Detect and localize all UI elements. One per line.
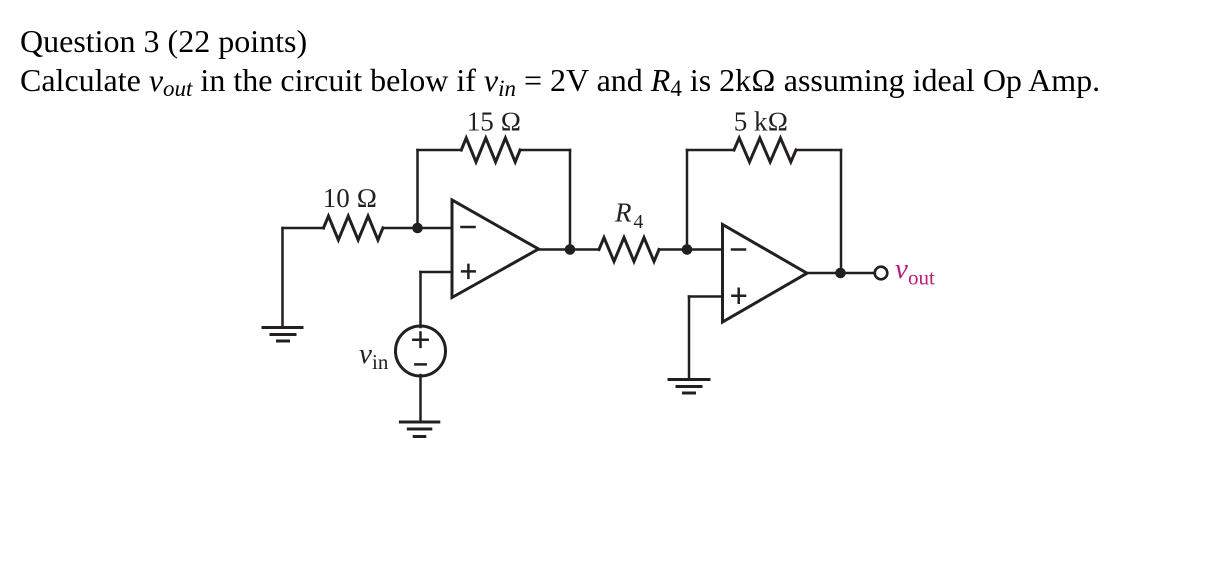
svg-text:out: out [908, 266, 935, 290]
wire: feedback right vertical down to U1 output [569, 150, 572, 249]
wire: R4 to U2 inverting input [659, 248, 723, 251]
wire: feedback2 top left segment [687, 149, 734, 152]
wire: feedback2 right vertical down to U2 output [840, 150, 843, 273]
question title text [20, 25, 307, 57]
question body text [20, 64, 1100, 96]
ground GND3 symbol [669, 380, 709, 394]
svg-text:in: in [372, 350, 389, 374]
wire: GND1 to resistor 10ohm [283, 227, 324, 230]
wire: U2 noninverting input horizontal [689, 295, 723, 298]
resistor R2 15 ohm (feedback U1) [461, 138, 520, 162]
wire: feedback2 top right segment [796, 149, 841, 152]
resistor R1 10 ohm [324, 216, 383, 240]
op-amp U2 triangle [723, 225, 808, 323]
svg-text:R: R [614, 198, 632, 228]
wire: U2 output to terminal [807, 272, 875, 275]
svg-text:10 Ω: 10 Ω [323, 183, 378, 213]
ground GND1 symbol [263, 328, 302, 342]
node C (junction R4 / 5k / U2 minus) [682, 244, 693, 255]
U1 plus sign [462, 265, 475, 278]
node A (junction 10ohm / 15ohm / U1 minus) [412, 223, 423, 234]
svg-text:v: v [895, 253, 908, 285]
U2 minus sign [732, 248, 745, 251]
wire: resistor 10ohm to op-amp U1 inverting input [383, 227, 452, 230]
svg-text:5 kΩ: 5 kΩ [734, 107, 789, 137]
wire: feedback top left segment [418, 149, 462, 152]
wire: feedback2 left vertical (node C up) [686, 150, 689, 250]
resistor R4 [599, 238, 659, 262]
svg-text:15 Ω: 15 Ω [467, 107, 522, 137]
resistor R3 5 kohm (feedback U2) [734, 138, 796, 162]
node D (U2 output junction) [835, 268, 846, 279]
wire: U2 plus input down to GND3 [688, 297, 691, 380]
U1 minus sign [462, 226, 475, 229]
wire: feedback top right segment [520, 149, 570, 152]
ground GND1 (left) vertical wire [281, 228, 284, 327]
op-amp U1 triangle [452, 200, 539, 298]
ground GND2 symbol [400, 422, 438, 437]
node B (U1 output junction) [565, 244, 576, 255]
wire: U1 output to R4 [539, 248, 600, 251]
svg-text:4: 4 [633, 211, 643, 233]
wire: U1 plus input down to source [419, 272, 422, 327]
Vin plus sign [413, 333, 427, 347]
wire: source bottom to GND2 [419, 375, 422, 422]
output terminal circle [875, 267, 888, 280]
wire: feedback left vertical (node A up) [416, 150, 419, 228]
svg-text:v: v [359, 338, 372, 370]
wire: U1 noninverting input horizontal [421, 271, 453, 274]
Vin minus sign [415, 363, 425, 366]
U2 plus sign [732, 289, 745, 303]
voltage source Vin circle [396, 326, 446, 376]
